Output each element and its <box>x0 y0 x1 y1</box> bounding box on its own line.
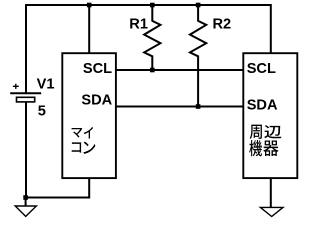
svg-text:R2: R2 <box>213 16 232 32</box>
svg-text:R1: R1 <box>129 16 148 32</box>
svg-text:SCL: SCL <box>247 61 276 77</box>
svg-text:SCL: SCL <box>83 61 112 77</box>
svg-text:V1: V1 <box>37 77 55 93</box>
svg-text:5: 5 <box>38 103 46 119</box>
svg-text:SDA: SDA <box>81 93 112 109</box>
svg-text:SDA: SDA <box>247 97 278 113</box>
